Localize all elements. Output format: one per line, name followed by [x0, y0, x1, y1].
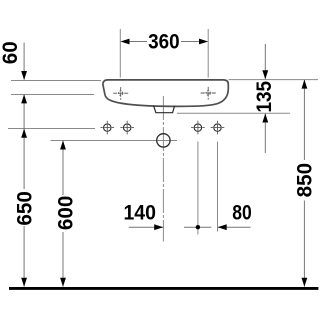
svg-text:650: 650 — [13, 191, 37, 226]
svg-text:140: 140 — [123, 201, 156, 225]
svg-text:80: 80 — [232, 201, 252, 225]
svg-text:135: 135 — [252, 81, 276, 113]
svg-text:850: 850 — [292, 163, 316, 198]
svg-text:600: 600 — [53, 196, 77, 231]
svg-text:60: 60 — [0, 41, 22, 64]
svg-text:360: 360 — [148, 30, 180, 54]
